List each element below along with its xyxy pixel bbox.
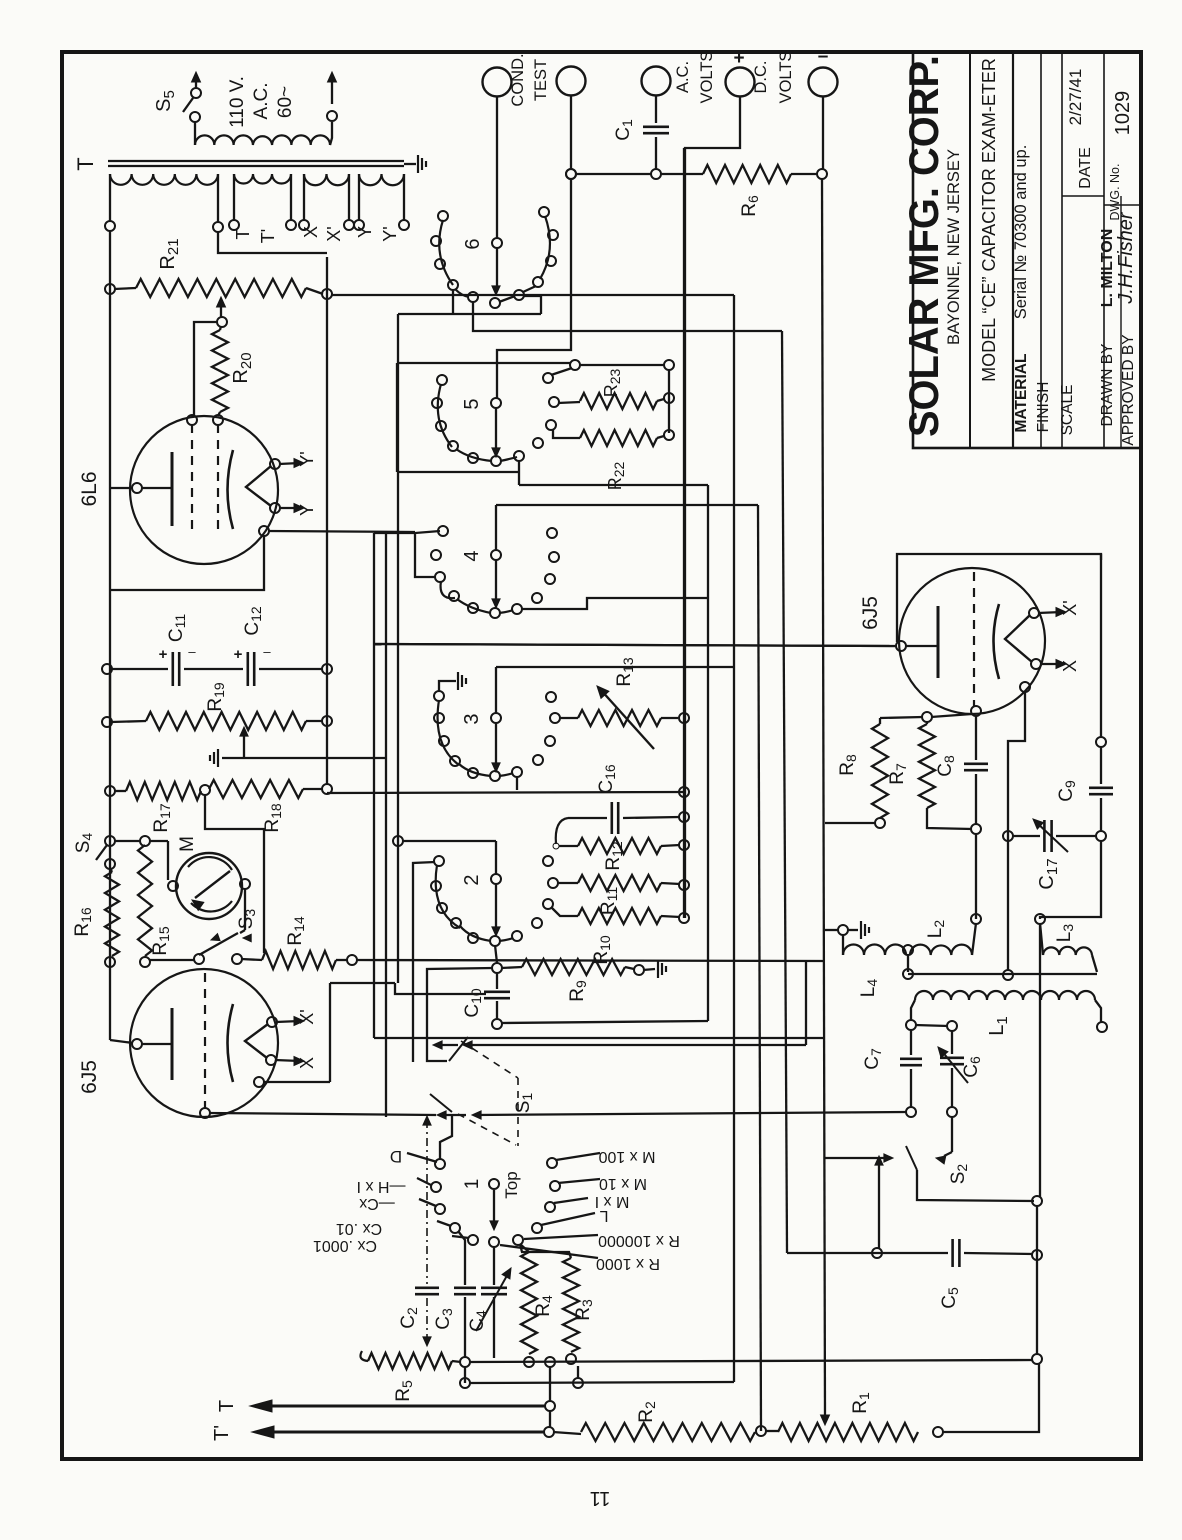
svg-text:R14: R14: [285, 916, 307, 946]
svg-text:L2: L2: [925, 920, 947, 939]
svg-text:C16: C16: [596, 764, 618, 794]
svg-text:J.H.Fisher: J.H.Fisher: [1115, 211, 1137, 304]
svg-text:R x 1000: R x 1000: [596, 1255, 660, 1272]
svg-text:110 V.: 110 V.: [227, 76, 248, 128]
svg-text:4: 4: [461, 550, 483, 561]
svg-text:R9: R9: [567, 980, 589, 1002]
svg-text:R x 100000: R x 100000: [598, 1232, 680, 1249]
svg-text:VOLTS: VOLTS: [777, 51, 795, 104]
svg-text:C6: C6: [961, 1056, 983, 1078]
svg-text:M x 10: M x 10: [599, 1175, 647, 1192]
svg-text:11: 11: [590, 1487, 611, 1509]
svg-text:R12: R12: [603, 841, 625, 871]
svg-text:L4: L4: [858, 979, 880, 998]
svg-text:DATE: DATE: [1077, 147, 1094, 188]
svg-text:6: 6: [462, 238, 484, 249]
svg-text:A.C.: A.C.: [251, 83, 272, 120]
svg-text:SOLAR MFG. CORP.: SOLAR MFG. CORP.: [900, 55, 947, 437]
svg-text:R15: R15: [150, 926, 172, 956]
svg-text:C17: C17: [1036, 858, 1061, 889]
svg-text:—H x I: —H x I: [357, 1178, 406, 1195]
svg-text:DRAWN BY: DRAWN BY: [1099, 344, 1116, 427]
svg-text:T: T: [233, 229, 253, 240]
svg-text:6L6: 6L6: [78, 471, 101, 506]
svg-text:R21: R21: [157, 238, 182, 269]
svg-text:L1: L1: [986, 1016, 1011, 1035]
svg-text:R8: R8: [837, 754, 859, 776]
svg-text:Cx .01: Cx .01: [336, 1220, 382, 1237]
svg-text:R23: R23: [601, 369, 623, 398]
svg-text:R1: R1: [850, 1392, 872, 1414]
svg-text:S2: S2: [948, 1164, 970, 1185]
svg-text:A.C.: A.C.: [674, 61, 692, 93]
svg-text:R17: R17: [151, 803, 173, 833]
svg-text:DWG. No.: DWG. No.: [1108, 164, 1122, 221]
svg-text:BAYONNE, NEW JERSEY: BAYONNE, NEW JERSEY: [945, 149, 963, 345]
svg-text:T: T: [216, 1400, 238, 1412]
svg-text:1029: 1029: [1112, 91, 1134, 136]
svg-text:Top: Top: [502, 1171, 521, 1198]
svg-text:X': X': [297, 1009, 317, 1024]
svg-text:+: +: [733, 48, 744, 69]
svg-text:X: X: [297, 1057, 317, 1069]
svg-text:5: 5: [461, 398, 483, 409]
svg-text:X': X': [324, 226, 344, 241]
svg-text:T': T': [211, 1425, 233, 1441]
svg-text:FINISH: FINISH: [1035, 382, 1052, 433]
svg-text:S5: S5: [153, 90, 178, 112]
svg-text:TEST: TEST: [532, 59, 550, 101]
svg-text:C8: C8: [935, 755, 957, 777]
svg-text:R7: R7: [887, 763, 909, 785]
svg-text:X: X: [301, 226, 321, 238]
svg-text:R19: R19: [205, 682, 227, 712]
svg-text:Y: Y: [355, 226, 375, 238]
svg-text:Y': Y': [297, 451, 317, 466]
svg-text:2/27/41: 2/27/41: [1066, 69, 1085, 126]
svg-text:C11: C11: [166, 614, 188, 642]
svg-text:R20: R20: [230, 352, 255, 383]
svg-text:R18: R18: [262, 803, 284, 833]
svg-text:2: 2: [461, 874, 483, 885]
svg-text:VOLTS: VOLTS: [698, 51, 716, 104]
svg-text:3: 3: [461, 713, 483, 724]
svg-text:Y: Y: [297, 504, 317, 516]
svg-text:Cx .0001: Cx .0001: [313, 1237, 377, 1254]
svg-text:MODEL “CE” CAPACITOR EXAM-ETER: MODEL “CE” CAPACITOR EXAM-ETER: [979, 58, 999, 382]
svg-text:–: –: [263, 644, 271, 659]
svg-text:X': X': [1060, 600, 1080, 615]
svg-text:C9: C9: [1056, 780, 1078, 802]
svg-text:C5: C5: [939, 1287, 961, 1309]
svg-text:R16: R16: [72, 907, 94, 937]
svg-text:T: T: [73, 157, 98, 170]
svg-text:L. MILTON: L. MILTON: [1099, 229, 1116, 308]
svg-text:D.C.: D.C.: [752, 61, 770, 94]
svg-text:–: –: [188, 644, 196, 659]
svg-text:Y': Y': [380, 226, 400, 241]
svg-text:T': T': [258, 229, 278, 243]
svg-text:APPROVED BY: APPROVED BY: [1120, 334, 1137, 445]
svg-text:+: +: [234, 646, 243, 663]
svg-text:S4: S4: [73, 833, 95, 854]
svg-text:COND.: COND.: [509, 53, 527, 106]
svg-text:6J5: 6J5: [859, 596, 882, 630]
svg-text:L3: L3: [1054, 924, 1076, 943]
svg-text:—Cx: —Cx: [359, 1195, 395, 1212]
svg-text:C10: C10: [462, 988, 484, 1018]
svg-text:M x 100: M x 100: [598, 1148, 655, 1165]
svg-text:C1: C1: [613, 119, 635, 141]
svg-text:R6: R6: [739, 195, 761, 217]
svg-text:R5: R5: [393, 1380, 415, 1402]
svg-text:S1: S1: [513, 1093, 535, 1114]
svg-text:–: –: [818, 46, 829, 67]
svg-text:R2: R2: [636, 1401, 658, 1423]
svg-text:C3: C3: [433, 1308, 455, 1330]
svg-text:R13: R13: [614, 657, 636, 687]
svg-text:60~: 60~: [275, 86, 296, 118]
svg-text:X: X: [1060, 660, 1080, 672]
svg-text:M: M: [177, 836, 198, 852]
svg-text:1: 1: [462, 1179, 483, 1190]
svg-text:C2: C2: [398, 1307, 420, 1329]
svg-text:L: L: [599, 1207, 608, 1224]
svg-text:S3: S3: [236, 909, 258, 930]
svg-text:D: D: [390, 1147, 402, 1166]
svg-text:C7: C7: [862, 1048, 884, 1070]
svg-text:Serial № 70300 and up.: Serial № 70300 and up.: [1012, 145, 1030, 320]
svg-text:SCALE: SCALE: [1059, 385, 1076, 436]
svg-text:C12: C12: [242, 606, 264, 636]
svg-text:MATERIAL: MATERIAL: [1013, 354, 1030, 433]
svg-text:6J5: 6J5: [78, 1060, 101, 1094]
svg-text:+: +: [159, 646, 168, 663]
